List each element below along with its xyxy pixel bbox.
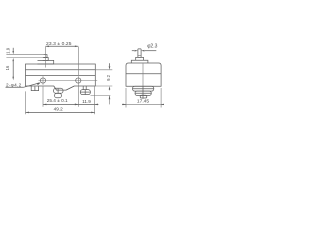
- svg-text:φ2.3: φ2.3: [147, 43, 157, 49]
- svg-text:25.4 ± 0.1: 25.4 ± 0.1: [47, 98, 68, 103]
- dim 49.2 line: [26, 111, 95, 113]
- leader 2-phi4.2: [24, 83, 40, 87]
- plunger cap: [43, 58, 49, 61]
- side view body: [126, 63, 161, 86]
- washer bottom ext right: [91, 95, 111, 97]
- plunger base plate: [38, 60, 54, 64]
- screw terminal right: neck: [83, 86, 86, 90]
- terminal stack lens 3: [140, 95, 147, 98]
- side view centerline: [142, 64, 144, 87]
- svg-text:11.9: 11.9: [82, 99, 91, 104]
- plunger pin (front view): [44, 55, 47, 58]
- dim 9.2 up arrow: [109, 88, 111, 91]
- screw terminal under notch: washer: [54, 88, 63, 93]
- right column lower segment: [109, 96, 111, 105]
- svg-text:23.3 ± 0.25: 23.3 ± 0.25: [46, 41, 72, 47]
- terminal stack lens 1 (side view): [133, 86, 154, 91]
- dim 23.3+-0.25 line: [46, 45, 79, 47]
- body seam 2: [26, 74, 96, 76]
- left dim lower line + down arrow: [12, 61, 14, 77]
- terminal stack lens 2: [135, 91, 151, 95]
- side plunger pin: [138, 49, 141, 58]
- bottom ext right: [95, 85, 112, 87]
- right washer midline: [80, 91, 90, 93]
- pin detail marks: [138, 55, 141, 57]
- left dim up arrow: [12, 58, 14, 61]
- side view seam: [126, 73, 161, 75]
- seam ext right: [95, 69, 112, 71]
- mounting hole left: [40, 78, 45, 83]
- side plunger cap: [136, 57, 144, 60]
- dim 23.3 right extension: [77, 47, 79, 76]
- dim 17.45 extensions: [125, 88, 127, 108]
- svg-text:2-φ4.2: 2-φ4.2: [6, 82, 22, 87]
- svg-text:49.2: 49.2: [54, 107, 64, 112]
- dim 9.2 down arrow: [109, 63, 111, 66]
- svg-text:1.9: 1.9: [5, 47, 10, 53]
- notch slant corrections: [54, 86, 75, 90]
- ext line cap-top level: [6, 57, 42, 59]
- svg-text:17.45: 17.45: [137, 99, 150, 105]
- notch screw tier2: [55, 93, 62, 97]
- dim 49.2 left extension: [25, 91, 27, 114]
- svg-text:9.2: 9.2: [106, 74, 111, 80]
- dim 11.9 outside arrows: [75, 104, 78, 106]
- screw terminal left: [31, 86, 38, 91]
- screw terminal right: washer: [80, 90, 90, 95]
- dim 17.45 line: [122, 103, 126, 105]
- dim 11.9 / 49.2 right extension: [94, 86, 96, 114]
- hole centerline: [39, 80, 98, 82]
- svg-text:16: 16: [5, 65, 10, 70]
- dim 11.9 line: [78, 103, 94, 105]
- side plunger base: [131, 60, 148, 63]
- dim 25.4 line: [43, 103, 78, 105]
- body seam 1: [26, 69, 96, 71]
- switch body outline (front view): [26, 64, 96, 90]
- mounting hole right: [76, 78, 81, 83]
- dim phi2.3: [132, 50, 134, 52]
- plunger centerline: [45, 47, 47, 68]
- dim 25.4 extensions: [42, 87, 44, 107]
- ext line pin-top level: [6, 54, 43, 56]
- leader 2-phi4.2 shoulder: [6, 86, 24, 88]
- left dim upper down arrow: [12, 48, 14, 52]
